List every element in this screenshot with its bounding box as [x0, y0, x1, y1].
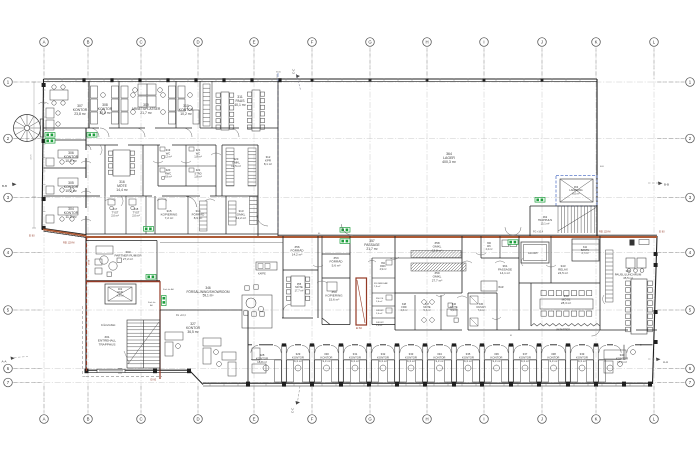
svg-text:28,3 m²: 28,3 m²	[561, 301, 571, 305]
svg-text:JACUZZI: JACUZZI	[528, 252, 538, 255]
svg-text:I: I	[483, 417, 484, 422]
svg-text:24,5 m²: 24,5 m²	[558, 271, 568, 275]
svg-text:9,3 m²: 9,3 m²	[464, 359, 472, 363]
svg-text:11,0 m²: 11,0 m²	[65, 215, 77, 219]
svg-text:EI 60: EI 60	[356, 327, 362, 330]
svg-text:12,2 m²: 12,2 m²	[236, 216, 246, 220]
svg-text:18,8 m²: 18,8 m²	[257, 360, 267, 364]
svg-text:14,1 m²: 14,1 m²	[500, 271, 510, 275]
svg-text:9,3 m²: 9,3 m²	[550, 359, 558, 363]
svg-text:59,1 m²: 59,1 m²	[203, 294, 214, 298]
svg-text:A-A: A-A	[2, 360, 7, 364]
svg-text:C-C: C-C	[292, 68, 296, 74]
svg-text:4,9 m²: 4,9 m²	[380, 268, 387, 271]
svg-text:Frånluftsfläkt: Frånluftsfläkt	[101, 324, 116, 327]
svg-text:14,4 m²: 14,4 m²	[116, 188, 128, 192]
svg-text:9,3 m²: 9,3 m²	[493, 359, 501, 363]
svg-text:15,1 m²: 15,1 m²	[541, 221, 550, 225]
svg-text:5,3 m²: 5,3 m²	[423, 309, 430, 312]
svg-text:A: A	[43, 40, 46, 45]
svg-text:C-C: C-C	[291, 407, 295, 413]
svg-text:D: D	[196, 417, 199, 422]
svg-text:350 VS: 350 VS	[376, 298, 384, 300]
svg-text:9,3 m²: 9,3 m²	[407, 359, 415, 363]
svg-text:H: H	[425, 417, 428, 422]
svg-text:C: C	[139, 417, 142, 422]
svg-text:EI 60: EI 60	[659, 231, 665, 234]
svg-text:K: K	[595, 417, 598, 422]
svg-text:36,5 m²: 36,5 m²	[187, 330, 199, 334]
svg-text:9,3 m²: 9,3 m²	[578, 359, 586, 363]
svg-text:BAR: BAR	[499, 286, 504, 289]
svg-text:8,1 m²: 8,1 m²	[264, 162, 272, 166]
svg-text:K: K	[595, 40, 598, 45]
svg-text:5100: 5100	[276, 72, 282, 74]
svg-text:9,3 m²: 9,3 m²	[351, 359, 359, 363]
svg-text:C: C	[139, 40, 142, 45]
svg-text:7,2 m²: 7,2 m²	[165, 216, 174, 220]
svg-text:10,2 m²: 10,2 m²	[180, 112, 192, 116]
svg-text:10,2 m²: 10,2 m²	[65, 159, 77, 163]
svg-text:TRAPPHUS: TRAPPHUS	[99, 342, 116, 346]
svg-text:J: J	[541, 40, 543, 45]
svg-text:D: D	[196, 40, 199, 45]
svg-text:348 WC: 348 WC	[376, 322, 384, 324]
svg-text:21,7 m²: 21,7 m²	[366, 247, 378, 251]
svg-text:12570: 12570	[31, 154, 33, 160]
svg-text:KAFFE: KAFFE	[258, 273, 266, 276]
svg-text:8,0 m²: 8,0 m²	[572, 191, 579, 195]
svg-text:B-B: B-B	[664, 183, 669, 187]
svg-text:27,2 m²: 27,2 m²	[123, 257, 133, 261]
svg-text:2,2 m²: 2,2 m²	[486, 248, 493, 251]
svg-text:EI 60: EI 60	[151, 378, 157, 381]
svg-text:5,6 m²: 5,6 m²	[332, 263, 341, 267]
svg-text:REI 120-M: REI 120-M	[63, 242, 74, 245]
svg-text:2,0 m²: 2,0 m²	[376, 312, 382, 315]
svg-text:2,0 m²: 2,0 m²	[132, 214, 140, 218]
svg-text:349 WC: 349 WC	[376, 310, 384, 312]
svg-text:2,2 m²: 2,2 m²	[164, 155, 172, 159]
svg-text:5,9 m²: 5,9 m²	[450, 309, 457, 312]
svg-text:EI 60: EI 60	[87, 260, 89, 266]
svg-text:F: F	[311, 40, 314, 45]
svg-text:4,3 m²: 4,3 m²	[400, 309, 407, 312]
svg-text:F: F	[311, 417, 314, 422]
svg-text:15,6 m²: 15,6 m²	[329, 297, 340, 301]
svg-text:4,3 m²: 4,3 m²	[116, 293, 123, 297]
svg-text:351 MINICAR: 351 MINICAR	[374, 282, 388, 285]
svg-text:EI 60: EI 60	[29, 235, 35, 238]
svg-text:10,0 m²: 10,0 m²	[99, 111, 111, 115]
svg-text:1,8 m²: 1,8 m²	[194, 175, 202, 179]
svg-text:B: B	[87, 40, 90, 45]
svg-text:1,8 m²: 1,8 m²	[194, 155, 202, 159]
svg-text:REI 120-M: REI 120-M	[599, 231, 610, 234]
svg-text:6,7 m²: 6,7 m²	[581, 252, 588, 255]
svg-text:2,6 m²: 2,6 m²	[376, 300, 382, 303]
svg-text:FG +10,4: FG +10,4	[533, 231, 544, 234]
svg-text:A: A	[43, 417, 46, 422]
svg-text:Förk för: Förk för	[148, 301, 156, 304]
svg-text:E: E	[253, 40, 256, 45]
svg-text:7,4 m²: 7,4 m²	[477, 309, 484, 312]
svg-text:14,2 m²: 14,2 m²	[292, 252, 303, 256]
svg-text:4,9 m²: 4,9 m²	[164, 175, 172, 179]
svg-text:Förk för AK: Förk för AK	[163, 288, 174, 291]
svg-text:E: E	[253, 417, 256, 422]
svg-text:9,3 m²: 9,3 m²	[294, 359, 302, 363]
svg-text:FG +10,4: FG +10,4	[176, 315, 186, 317]
svg-text:17,7 m²: 17,7 m²	[295, 288, 304, 292]
svg-text:J: J	[541, 417, 543, 422]
svg-text:B-B: B-B	[2, 184, 7, 188]
svg-text:B: B	[87, 417, 90, 422]
svg-text:12,5 m²: 12,5 m²	[231, 164, 241, 168]
svg-text:9,3 m²: 9,3 m²	[379, 359, 387, 363]
svg-text:27,7 m²: 27,7 m²	[432, 278, 443, 282]
svg-text:23,8 m²: 23,8 m²	[74, 112, 86, 116]
svg-text:7,9 m²: 7,9 m²	[374, 285, 380, 288]
svg-text:40,1 m²: 40,1 m²	[234, 103, 246, 107]
svg-text:9,3 m²: 9,3 m²	[521, 359, 529, 363]
svg-text:H: H	[425, 40, 428, 45]
svg-text:2,0 m²: 2,0 m²	[111, 214, 119, 218]
svg-text:21,7 m²: 21,7 m²	[140, 111, 152, 115]
svg-text:400,3 m²: 400,3 m²	[442, 160, 457, 164]
svg-text:I: I	[483, 40, 484, 45]
svg-text:45,5 m²: 45,5 m²	[623, 276, 633, 280]
svg-text:10,2 m²: 10,2 m²	[65, 189, 77, 193]
svg-text:9,3 m²: 9,3 m²	[323, 359, 331, 363]
svg-text:A-A: A-A	[663, 360, 668, 364]
svg-text:9,3 m²: 9,3 m²	[436, 359, 444, 363]
